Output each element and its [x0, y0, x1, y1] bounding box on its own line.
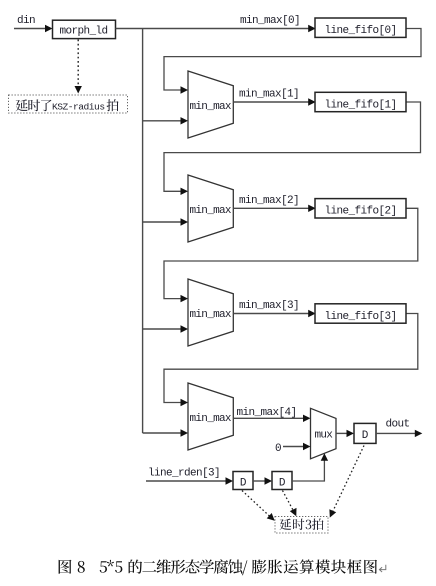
- svg-text:min_max[3]: min_max[3]: [239, 300, 299, 312]
- note box 延时3拍: [275, 517, 328, 534]
- svg-text:min_max[0]: min_max[0]: [240, 15, 300, 27]
- block line_fifo[2]: [315, 199, 406, 218]
- mux trapezoid: [311, 408, 337, 459]
- svg-text:mux: mux: [315, 430, 334, 442]
- block line_fifo[3]: [315, 304, 406, 323]
- wire line_rden[3] input: [146, 480, 227, 482]
- wire line_fifo[2] feedback loop: [164, 208, 418, 298]
- wire line_fifo[1] feedback loop: [164, 102, 421, 191]
- wire bus to min_max4 bottom input: [143, 432, 182, 434]
- wire line_fifo[0] feedback loop: [164, 29, 421, 91]
- caption figure title: [59, 559, 378, 575]
- svg-text:dout: dout: [386, 419, 410, 431]
- wire D1 to D2: [253, 480, 266, 482]
- wire bus to min_max2 bottom input: [143, 221, 182, 223]
- flip-flop D3 output register: [354, 423, 376, 443]
- svg-text:min_max: min_max: [190, 205, 232, 217]
- flip-flop D2: [272, 472, 292, 490]
- wire dout: [376, 432, 415, 434]
- dotted wire D2 to delay3 note: [283, 491, 294, 512]
- min_max stage 4 trapezoid U4: [188, 383, 233, 450]
- wire min_max[0] net: [116, 28, 310, 30]
- svg-text:min_max[1]: min_max[1]: [239, 89, 299, 101]
- svg-text:min_max[2]: min_max[2]: [239, 195, 299, 207]
- dotted wire D3 to delay3 note: [333, 446, 365, 513]
- min_max stage 1 trapezoid U1: [188, 71, 233, 138]
- svg-text:min_max: min_max: [190, 309, 232, 321]
- wire min_max[4] net: [233, 417, 304, 419]
- svg-text:din: din: [17, 15, 35, 27]
- min_max stage 3 trapezoid U3: [188, 279, 233, 346]
- wire bus to min_max3 bottom input: [143, 328, 182, 330]
- dotted wire D1 to delay3 note: [242, 491, 271, 518]
- wire din input: [14, 28, 47, 30]
- svg-text:line_rden[3]: line_rden[3]: [148, 467, 220, 479]
- block line_fifo[1]: [315, 92, 406, 111]
- svg-text:D: D: [362, 430, 369, 442]
- wire 0 to mux: [283, 446, 304, 448]
- svg-text:line_fifo[2]: line_fifo[2]: [325, 206, 397, 218]
- block line_fifo[0]: [315, 18, 406, 37]
- dotted wire morph_ld to delay note: [77, 40, 79, 88]
- wire mux output: [336, 432, 348, 434]
- svg-text:line_fifo[0]: line_fifo[0]: [325, 25, 397, 37]
- paragraph return mark: [379, 565, 385, 572]
- wire bus to min_max1 bottom input: [143, 120, 182, 122]
- min_max stage 2 trapezoid U2: [188, 175, 233, 242]
- svg-text:morph_ld: morph_ld: [60, 26, 108, 38]
- wire vertical bus from morph_ld output: [142, 29, 144, 434]
- svg-text:KSZ-radius: KSZ-radius: [52, 102, 105, 113]
- svg-text:line_fifo[3]: line_fifo[3]: [325, 311, 397, 323]
- flip-flop D1: [233, 472, 253, 490]
- wire line_fifo[3] feedback loop: [164, 314, 418, 403]
- svg-text:min_max: min_max: [190, 101, 232, 113]
- svg-text:min_max[4]: min_max[4]: [237, 407, 297, 419]
- wire D2 to mux select: [292, 459, 324, 481]
- block morph_ld: [53, 20, 116, 38]
- wire min_max[3] net: [233, 313, 309, 315]
- svg-text:D: D: [279, 477, 286, 489]
- svg-text:line_fifo[1]: line_fifo[1]: [325, 99, 397, 111]
- svg-text:0: 0: [275, 443, 281, 455]
- svg-text:D: D: [240, 477, 247, 489]
- wire min_max[2] net: [233, 207, 309, 209]
- note box 延时了KSZ-radius拍: [9, 95, 128, 113]
- svg-text:min_max: min_max: [190, 413, 232, 425]
- wire min_max[1] net: [233, 101, 309, 103]
